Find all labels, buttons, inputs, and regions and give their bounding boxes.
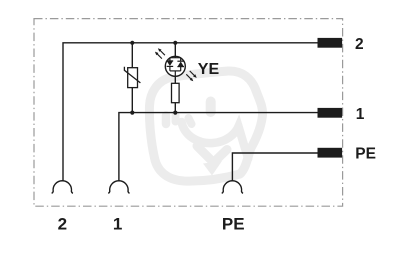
varistor symbol diagonal stroke bbox=[124, 67, 140, 83]
LED emission arrows lower-right bbox=[186, 71, 196, 81]
pad 1 (flat connector blade) bbox=[318, 108, 343, 118]
wire: LED branch top bbox=[174, 43, 176, 57]
wire: LED to resistor bbox=[174, 76, 176, 83]
svg-text:1: 1 bbox=[113, 214, 122, 233]
junction dot bottom varistor bbox=[130, 111, 134, 115]
wire: varistor branch bottom bbox=[131, 88, 133, 113]
svg-text:2: 2 bbox=[355, 36, 364, 53]
junction dot bottom resistor bbox=[173, 111, 177, 115]
LED internal anti-parallel diodes bbox=[167, 56, 184, 76]
wire: resistor to net 1 rail bbox=[174, 103, 176, 113]
svg-text:1: 1 bbox=[356, 106, 365, 123]
svg-text:PE: PE bbox=[222, 214, 245, 233]
wire: net 1 rail from contact 1 to pad 1 bbox=[119, 113, 318, 181]
junction dot top varistor bbox=[130, 41, 134, 45]
junction dot top LED bbox=[173, 41, 177, 45]
contact 1 socket symbol bbox=[108, 181, 129, 193]
varistor R2 body bbox=[128, 68, 138, 88]
wire: PE net from contact PE to pad PE bbox=[232, 153, 317, 181]
wire: net 2 top rail from left corner to pad 2 bbox=[63, 43, 318, 181]
watermark logo bbox=[149, 71, 262, 181]
wire: varistor branch top bbox=[131, 43, 133, 68]
contact 2 socket symbol bbox=[52, 181, 73, 193]
LED emission arrows upper-left bbox=[155, 48, 165, 58]
LED U1 circle bbox=[165, 56, 185, 76]
resistor R1 body bbox=[172, 83, 180, 102]
connector housing outline (dash-dot frame) bbox=[34, 19, 343, 207]
pad 2 (flat connector blade) bbox=[318, 38, 343, 48]
svg-text:YE: YE bbox=[198, 61, 220, 78]
contact PE socket symbol bbox=[222, 181, 243, 193]
svg-text:PE: PE bbox=[355, 145, 376, 162]
svg-text:2: 2 bbox=[58, 214, 67, 233]
pad PE (flat connector blade) bbox=[318, 148, 343, 158]
